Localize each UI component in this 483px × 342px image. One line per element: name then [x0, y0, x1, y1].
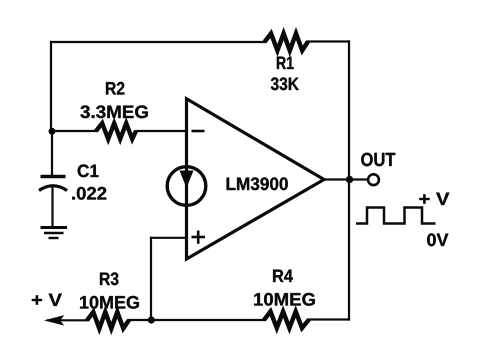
- label R4: [273, 270, 293, 282]
- wire minus input right segment: [136, 130, 187, 132]
- op-amp minus input sign: [192, 130, 205, 133]
- ground: [41, 228, 68, 239]
- node junction at plus/bottom wire: [148, 316, 155, 323]
- op-amp U1 triangle: [187, 99, 325, 259]
- resistor R1: [265, 34, 309, 51]
- current source inside U1: [167, 167, 206, 206]
- wire top left horizontal: [51, 41, 265, 43]
- wire plus input vertical: [150, 238, 152, 320]
- op-amp plus input sign: [192, 231, 206, 244]
- label R3: [100, 272, 118, 285]
- resistor R4: [264, 312, 309, 329]
- label +V left: [32, 294, 62, 306]
- wire plus input horizontal: [151, 237, 187, 239]
- wire C1 top lead: [51, 131, 53, 176]
- label C1: [78, 164, 99, 177]
- resistor R3: [87, 312, 129, 329]
- supply arrow left: [46, 316, 63, 325]
- wire output from apex: [324, 178, 368, 180]
- OUT terminal circle: [368, 174, 379, 185]
- label 10MEG right: [254, 293, 315, 306]
- wire C1 bottom lead: [51, 187, 53, 227]
- wire minus input left segment: [52, 130, 96, 132]
- label OUT: [361, 153, 395, 167]
- label +V right: [419, 193, 449, 205]
- label 33K: [271, 77, 299, 90]
- resistor R2: [96, 123, 136, 139]
- current source arrow: [180, 171, 194, 189]
- label 10MEG left: [80, 296, 139, 309]
- label R2: [106, 82, 124, 95]
- capacitor C1: [39, 177, 67, 191]
- wire R4 to right corner: [309, 318, 349, 320]
- node junction at output: [346, 176, 353, 183]
- wire top right horizontal: [308, 40, 349, 42]
- label R1: [277, 57, 294, 69]
- label 0V: [427, 233, 448, 246]
- wire left vertical: [50, 42, 52, 131]
- label .022: [72, 187, 106, 200]
- wire bottom left to R3: [48, 319, 87, 321]
- wire R3 to R4: [129, 319, 264, 321]
- node junction at R2/C1: [49, 128, 56, 135]
- label LM3900: [227, 177, 288, 190]
- label 3.3MEG: [80, 105, 147, 118]
- square wave symbol: [356, 208, 436, 224]
- wire right vertical: [348, 42, 350, 320]
